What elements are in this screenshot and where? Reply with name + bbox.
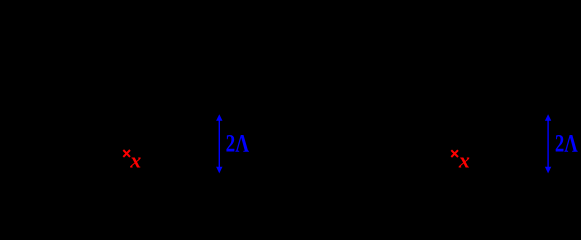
node A (left red cross marker)	[123, 150, 130, 157]
svg-text:2Λ: 2Λ	[226, 130, 249, 157]
svg-text:x: x	[129, 147, 141, 172]
svg-text:x: x	[458, 147, 470, 172]
wire (right blue double arrow)	[545, 114, 551, 173]
node B (right red cross marker)	[451, 150, 458, 157]
svg-text:2Λ: 2Λ	[555, 130, 578, 157]
wire (left blue double arrow)	[216, 114, 222, 173]
